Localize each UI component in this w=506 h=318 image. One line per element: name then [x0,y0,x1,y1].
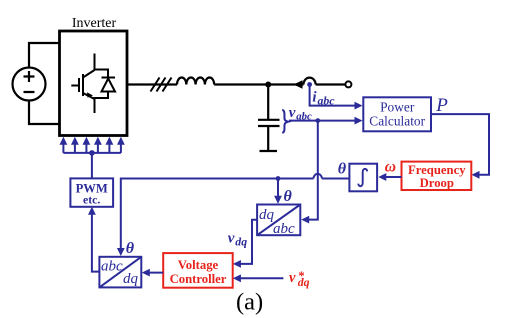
wire omega [382,176,402,178]
svg-text:Voltage: Voltage [178,258,219,272]
node gate bus [89,150,95,156]
block dq-abc transform [257,205,300,238]
svg-text:v: v [289,270,296,286]
inverter box [60,31,128,136]
gate drive arrows [60,137,125,153]
wire theta main [121,179,350,253]
wire dc bottom [29,101,60,125]
block Frequency Droop [402,162,472,190]
block Power Calculator [363,97,431,131]
three-phase slash marks [151,78,172,92]
wire vabc [289,120,359,122]
svg-text:P: P [435,95,448,116]
wire pwm to gate bus [91,153,93,179]
current probe hook arrow [294,78,316,89]
inductor L1 [177,78,214,85]
svg-text:Inverter: Inverter [72,16,117,31]
svg-text:θ: θ [126,240,135,257]
brace vabc [282,110,288,133]
svg-text:dq: dq [235,235,247,249]
svg-text:dq: dq [298,275,310,289]
wire iabc [310,85,359,106]
wire dc top [29,43,60,68]
arrow theta into dq-abc [277,179,279,201]
svg-text:abc: abc [318,94,336,108]
neutral bar [260,150,278,152]
block integrator [349,164,377,192]
open terminal circle [345,81,351,87]
svg-text:Controller: Controller [170,272,227,286]
node vabc tap [315,118,320,123]
wire abc-dq to pwm [92,211,100,272]
arrow theta into abc-dq [117,248,125,256]
node filter bus [265,82,271,88]
block Voltage Controller [163,253,233,288]
svg-text:v: v [289,105,296,121]
wire voltage controller to abc-dq [145,272,163,274]
block abc-dq transform [99,257,141,288]
svg-text:v: v [228,230,235,246]
svg-text:Calculator: Calculator [369,113,425,128]
svg-text:(a): (a) [236,288,263,315]
svg-text:ω: ω [385,159,396,176]
block PWM [70,178,113,206]
svg-text:θ: θ [284,188,293,205]
svg-text:dq: dq [123,271,139,287]
wire hop over vabc line [314,174,322,179]
gate bus line [63,152,121,154]
svg-text:abc: abc [101,259,123,275]
dc source V1 [13,68,46,101]
svg-text:Droop: Droop [420,176,454,190]
svg-text:abc: abc [273,221,295,237]
wire vabc down to dq-abc [305,121,318,220]
capacitor C1 [258,85,280,151]
wire vdq [237,220,258,264]
wire to node [214,83,303,85]
transistor Q1 (IGBT with diode) [71,54,115,114]
wire to terminal [316,83,346,85]
svg-text:θ: θ [338,161,347,178]
wire inverter output [127,83,177,85]
wire vdq ref [237,277,284,279]
svg-text:Power: Power [380,99,415,114]
node iabc tap [307,82,312,87]
svg-text:etc.: etc. [83,192,100,206]
wire P to droop [431,114,489,175]
node theta branch [276,176,281,181]
